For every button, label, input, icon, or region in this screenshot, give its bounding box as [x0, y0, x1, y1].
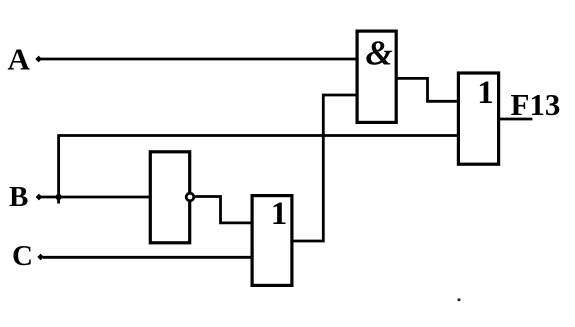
svg-text:C: C — [12, 240, 33, 272]
svg-text:F13: F13 — [511, 87, 561, 122]
svg-text:&: & — [366, 34, 393, 73]
svg-text:1: 1 — [477, 75, 494, 111]
svg-text:A: A — [8, 42, 31, 77]
svg-text:1: 1 — [271, 196, 288, 232]
svg-text:B: B — [9, 181, 28, 213]
